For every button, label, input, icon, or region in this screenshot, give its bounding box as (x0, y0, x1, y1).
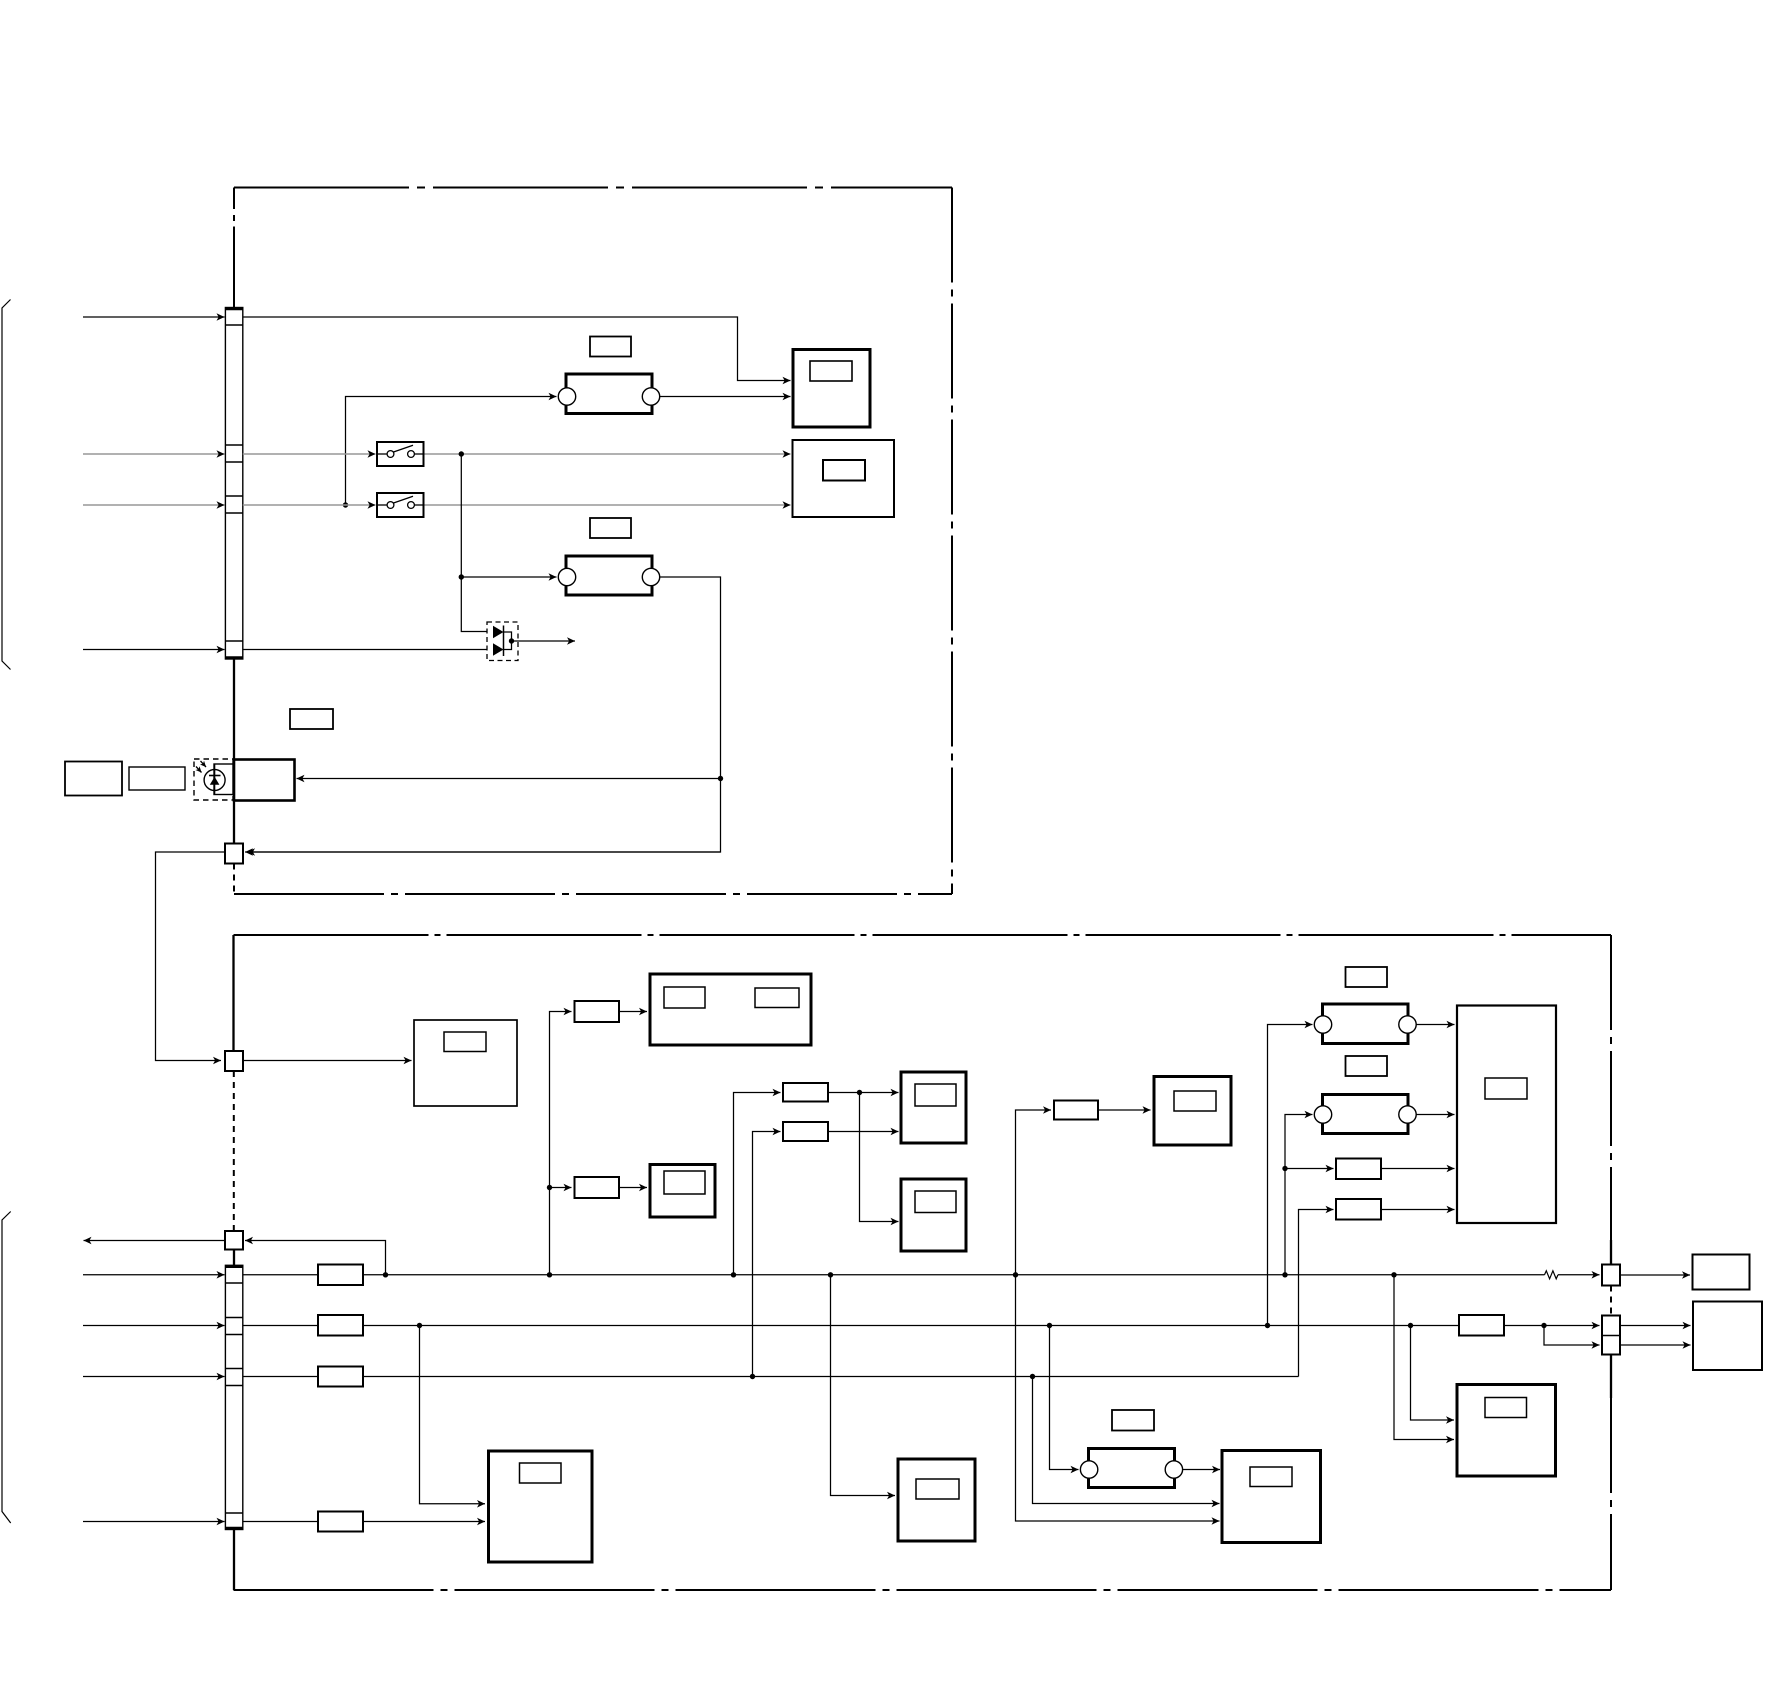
junction dot W5 x1285 (1282, 1272, 1287, 1277)
wire tap to R6 (1285, 1168, 1334, 1170)
board frame B top edge (234, 934, 1612, 936)
junction dot W6 x1544 (1541, 1323, 1546, 1328)
wire R3 to box7 (860, 1093, 899, 1222)
wire T2 output loop (245, 577, 721, 852)
wire R7 to box9 (1381, 1209, 1455, 1211)
IC2 box (793, 440, 895, 517)
dual diode D1 (487, 622, 575, 661)
resistor R12 (318, 1512, 363, 1532)
wire W6 to box12 (1411, 1326, 1455, 1421)
wire W1 to IC1 (243, 317, 791, 381)
board frame A left edge upper (233, 188, 235, 210)
board frame B left edge dashed seg (233, 1071, 235, 1231)
board frame A bottom edge (234, 893, 952, 895)
junction dot R2 tap (547, 1185, 552, 1190)
wire W7 to R4 (753, 1132, 781, 1377)
wire W6 to T6 (1050, 1326, 1079, 1470)
junction dot T2 input (459, 574, 464, 579)
board frame B left edge top solid (232, 935, 234, 1051)
transformer T2 (558, 556, 659, 595)
wire W7 long (363, 1376, 1299, 1378)
wire W5 to T4 (1285, 1115, 1313, 1275)
junction dot W5 x549.5 (547, 1272, 552, 1277)
wire W6 to CN8 (1504, 1325, 1600, 1327)
wire W5 input (83, 1274, 225, 1276)
connector CN5 (225, 1265, 242, 1529)
wire W7 a (243, 1376, 318, 1378)
junction dot R3 out (857, 1090, 862, 1095)
wire R1 to box4 (619, 1011, 647, 1013)
photocoupler PC1 (65, 759, 233, 800)
connector CN6 (225, 844, 243, 864)
IC box13 (1222, 1451, 1321, 1543)
label box L6 (1112, 1410, 1154, 1431)
wire CN6 to CN3 (156, 852, 226, 1061)
junction dot W7 x752 (750, 1374, 755, 1379)
IC box14 (898, 1459, 975, 1541)
resistor R1 (575, 1001, 620, 1022)
wire W5 to R3 (734, 1093, 781, 1275)
wire CN4 out left (84, 1240, 226, 1242)
junction dot W2 (459, 451, 464, 456)
wire W6 to box15 (420, 1326, 486, 1504)
junction dot W6 x1049.5 (1047, 1323, 1052, 1328)
IC box7 (901, 1179, 966, 1251)
photo receiver box PC1b (234, 760, 295, 801)
IC box10 (1693, 1255, 1750, 1290)
resistor R9 (318, 1265, 363, 1286)
wire W7 input (83, 1376, 225, 1378)
board frame A top edge (234, 187, 952, 189)
IC box5 (650, 1165, 715, 1218)
wire W3 input (83, 504, 225, 506)
resistor R11 (318, 1367, 363, 1387)
resistor R2 (575, 1177, 620, 1198)
junction dot W5 x830.5 (828, 1272, 833, 1277)
input group bracket A (2, 300, 11, 670)
resistor R10 (318, 1315, 363, 1336)
wire W3 a (243, 504, 376, 506)
IC box8 (1154, 1077, 1231, 1146)
wire W5 long (363, 1274, 1545, 1276)
wire W5 to R5 (1016, 1110, 1052, 1275)
board frame B right edge solid stubs (1610, 1240, 1612, 1265)
wire CN8 to box11 a (1620, 1325, 1691, 1327)
wire T4 to box9 (1416, 1114, 1454, 1116)
switch S2 (377, 493, 424, 517)
wire W6 long (363, 1325, 1459, 1327)
wire CN7 to box10 (1620, 1274, 1690, 1276)
wire W4 input (83, 649, 225, 651)
IC box4 (650, 974, 811, 1045)
wire W8 a (243, 1521, 318, 1523)
junction dot W6 x1267.5 (1265, 1323, 1270, 1328)
wire W7 to box13 (1033, 1377, 1220, 1504)
connector CN8 (1602, 1316, 1620, 1355)
label box L3 (290, 709, 333, 729)
junction dot W5 x1015.5 (1013, 1272, 1018, 1277)
board frame A left edge mid solid (233, 659, 235, 760)
wire W5 to box12 (1394, 1275, 1454, 1440)
resistor R8 (1459, 1315, 1504, 1336)
wire W5 to box13 (1016, 1275, 1220, 1521)
junction dot W3/T1 (343, 502, 348, 507)
wire W2 b (424, 453, 791, 455)
junction dot W5 x733.5 (731, 1272, 736, 1277)
wire W6 to T3 (1268, 1025, 1313, 1326)
wire W5 to CN7 (1558, 1274, 1600, 1276)
transformer T3 (1314, 1004, 1416, 1044)
wire W2 tap to T2 and D1 (461, 454, 492, 632)
wire CN8 to box11 b (1620, 1344, 1691, 1346)
junction dot W6 x1410.5 (1408, 1323, 1413, 1328)
wire R4 to box6 (828, 1131, 899, 1133)
wire W1 input (83, 316, 225, 318)
junction dot R6 tap (1282, 1166, 1287, 1171)
IC box6 (901, 1072, 966, 1143)
IC box9 (1457, 1006, 1556, 1224)
input group bracket B (2, 1212, 11, 1524)
wire W8 to box15 (363, 1521, 485, 1523)
processing box3 (414, 1020, 517, 1106)
junction dot W6 x419.5 (417, 1323, 422, 1328)
wire T3 to box9 (1416, 1024, 1454, 1026)
IC1 box (793, 350, 870, 428)
transformer T4 (1314, 1095, 1416, 1134)
wire PC1 output (297, 778, 721, 780)
wire R6 to box9 (1381, 1168, 1455, 1170)
connector CN7 (1602, 1265, 1620, 1286)
wire R3 to box6 (828, 1092, 899, 1094)
board frame B left edge stub (233, 1250, 235, 1266)
board frame A right edge (951, 188, 953, 895)
transformer T1 (558, 374, 659, 414)
IC box15 (489, 1451, 593, 1562)
label box L1 (590, 337, 631, 357)
wire W4 to D1 (243, 649, 493, 651)
board frame B right edge upper (1610, 935, 1612, 1240)
board frame B bottom edge (234, 1589, 1612, 1591)
wire T6 to box13 (1183, 1469, 1220, 1471)
transformer T6 (1080, 1449, 1182, 1488)
label box L5 (1346, 1056, 1388, 1076)
label box L4 (1346, 967, 1388, 987)
resistor R4 (783, 1122, 828, 1141)
wire R2 to box5 (619, 1187, 647, 1189)
wire W6 to CN8 lower (1544, 1326, 1600, 1346)
wire T1 output (660, 396, 791, 398)
board frame A left edge stub above CN6 (233, 801, 235, 844)
resistor R7 (1336, 1199, 1381, 1220)
wire W8 input (83, 1521, 225, 1523)
connector CN4 (225, 1231, 243, 1250)
wire W6 input (83, 1325, 225, 1327)
label box L2 (590, 518, 631, 538)
wire W5 a (243, 1274, 318, 1276)
wire into T2 (461, 576, 556, 578)
junction dot W7 x1032 (1030, 1374, 1035, 1379)
wire W7 to R7 (1299, 1210, 1334, 1377)
wire into CN4 (245, 1241, 386, 1275)
wire W2 input (83, 453, 225, 455)
wire W3 b (424, 504, 791, 506)
wire W3 tap to T1 (346, 397, 557, 506)
resistor R6 (1336, 1159, 1381, 1180)
wire CN3 to box3 (243, 1060, 412, 1062)
board frame B right edge lower (1610, 1398, 1612, 1590)
board frame B left edge bottom solid (233, 1530, 235, 1591)
wire W5 to box14 (831, 1275, 896, 1496)
wire into CN6 (247, 851, 721, 853)
resistor R5 (1054, 1101, 1098, 1120)
junction dot W5 x1394 (1391, 1272, 1396, 1277)
resistor R3 (783, 1083, 828, 1102)
connector CN3 (225, 1051, 243, 1071)
connector CN1 (225, 308, 242, 660)
junction dot W5 x385.5 (383, 1272, 388, 1277)
board frame A left edge lower dashed (233, 864, 235, 895)
switch S1 (377, 442, 424, 466)
IC box12 (1457, 1385, 1556, 1477)
wire W6 a (243, 1325, 318, 1327)
wire W5 to R1 (550, 1012, 572, 1275)
wire R5 to box8 (1098, 1109, 1151, 1111)
wire W2 a (243, 453, 376, 455)
resistor R13 zigzag (1545, 1271, 1559, 1279)
board frame B right edge dashed seg (1610, 1286, 1612, 1316)
IC box11 (1693, 1302, 1762, 1371)
junction dot PC1 wire (718, 776, 723, 781)
wire tap to R2 (550, 1187, 572, 1189)
